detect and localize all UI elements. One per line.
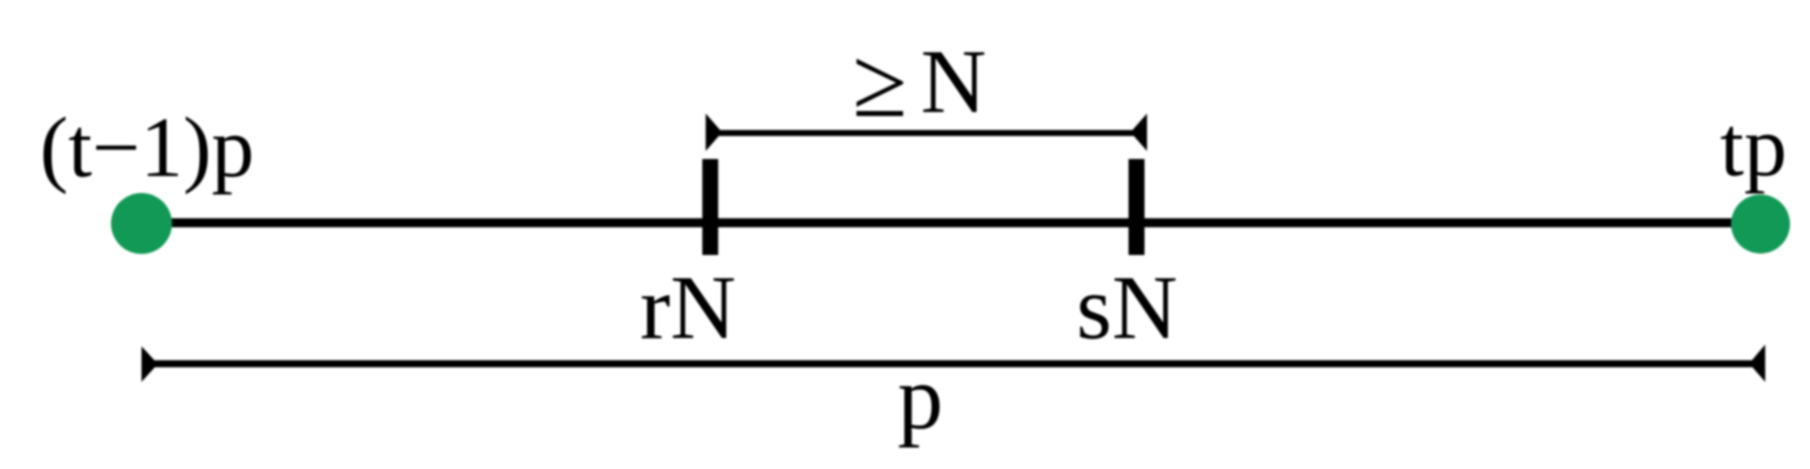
arrowhead: right end of interval measure — [1131, 114, 1148, 152]
arrowhead: left end of interval measure — [706, 114, 722, 152]
tick rN — [702, 159, 718, 255]
node (t-1)p: left endpoint dot — [111, 193, 172, 254]
svg-text:rN: rN — [640, 257, 736, 358]
tick sN — [1129, 159, 1145, 255]
arrowhead: left end of period span — [142, 346, 158, 382]
svg-text:≥: ≥ — [853, 27, 908, 138]
arrowhead: right end of period span — [1749, 345, 1765, 382]
wire: full period span line — [150, 360, 1757, 367]
svg-text:p: p — [898, 347, 944, 448]
svg-text:sN: sN — [1076, 257, 1177, 358]
node tp: right endpoint dot — [1731, 195, 1790, 254]
svg-text:tp: tp — [1720, 98, 1787, 194]
wire: interval measure line between rN and sN — [716, 130, 1136, 136]
svg-text:N: N — [921, 31, 987, 132]
wire: main number line segment — [141, 218, 1761, 227]
svg-text:(t−1)p: (t−1)p — [40, 101, 254, 195]
